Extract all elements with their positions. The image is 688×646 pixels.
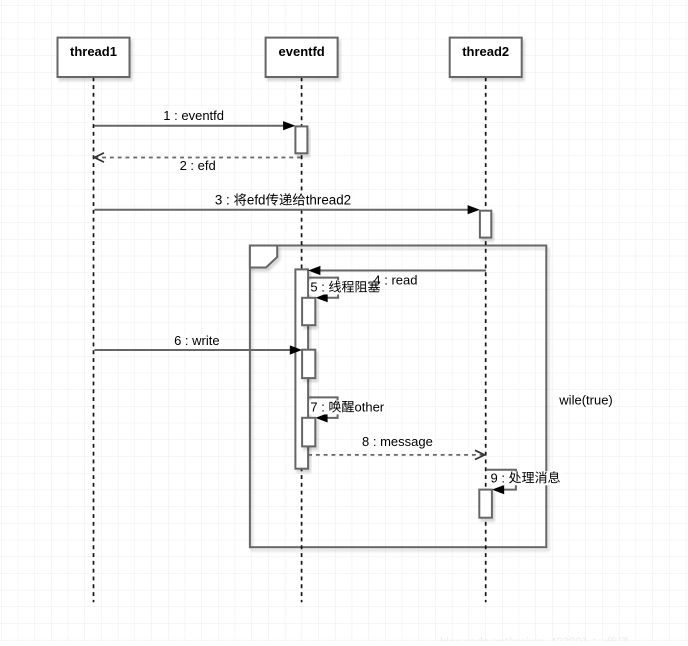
lifeline thread1: [93, 77, 95, 602]
svg-text:2 : efd: 2 : efd: [180, 158, 216, 173]
frame condition label wile(true): [558, 393, 614, 408]
svg-text:thread1: thread1: [70, 44, 117, 59]
message 4 label: [373, 272, 417, 287]
activation thread2 A: [480, 211, 491, 238]
svg-text:efd: efd: [247, 193, 266, 208]
svg-text:8 : message: 8 : message: [362, 434, 433, 449]
svg-text:eventfd: eventfd: [279, 44, 325, 59]
activation eventfd A: [295, 126, 307, 153]
svg-text:thread2: thread2: [306, 193, 351, 208]
svg-text:5 :: 5 :: [310, 280, 324, 295]
svg-text:4 : read: 4 : read: [373, 272, 417, 287]
svg-text:7 :: 7 :: [310, 399, 324, 414]
message 2 : efd: [94, 153, 301, 173]
self message 7 line: [308, 397, 338, 418]
message 3 : 将efd传递给thread2: [94, 193, 480, 215]
activation eventfd E (inner 3): [302, 418, 315, 447]
lifeline thread2: [485, 77, 487, 602]
self message 9 line: [486, 470, 516, 490]
frame corner label: [250, 246, 277, 268]
message 5 label: [309, 273, 419, 294]
svg-text:other: other: [355, 399, 385, 414]
loop frame: [250, 246, 546, 548]
activation eventfd B (outer): [295, 269, 308, 468]
message 9 label: [489, 470, 562, 485]
message 6 : write: [94, 333, 302, 355]
lifeline eventfd: [301, 77, 303, 602]
svg-text:wile(true): wile(true): [558, 393, 612, 408]
svg-text:6 : write: 6 : write: [174, 333, 220, 348]
svg-text:3 :: 3 :: [215, 193, 230, 208]
svg-text:1 : eventfd: 1 : eventfd: [163, 108, 224, 123]
actor box thread2: [450, 38, 522, 77]
activation eventfd C (inner 1): [302, 298, 315, 325]
svg-text:9 :: 9 :: [491, 470, 505, 485]
message 1 : eventfd: [94, 108, 295, 130]
actor box eventfd: [266, 38, 338, 77]
actor box thread1: [58, 38, 130, 77]
message 8 : message: [308, 434, 485, 460]
message 7 label: [309, 399, 385, 414]
svg-text:thread2: thread2: [462, 44, 509, 59]
message 4 line: [320, 270, 486, 272]
activation eventfd D (inner 2): [302, 350, 315, 378]
self message 5 line: [308, 278, 338, 298]
activation thread2 B: [479, 490, 492, 518]
message 4 arrowhead: [308, 266, 320, 275]
